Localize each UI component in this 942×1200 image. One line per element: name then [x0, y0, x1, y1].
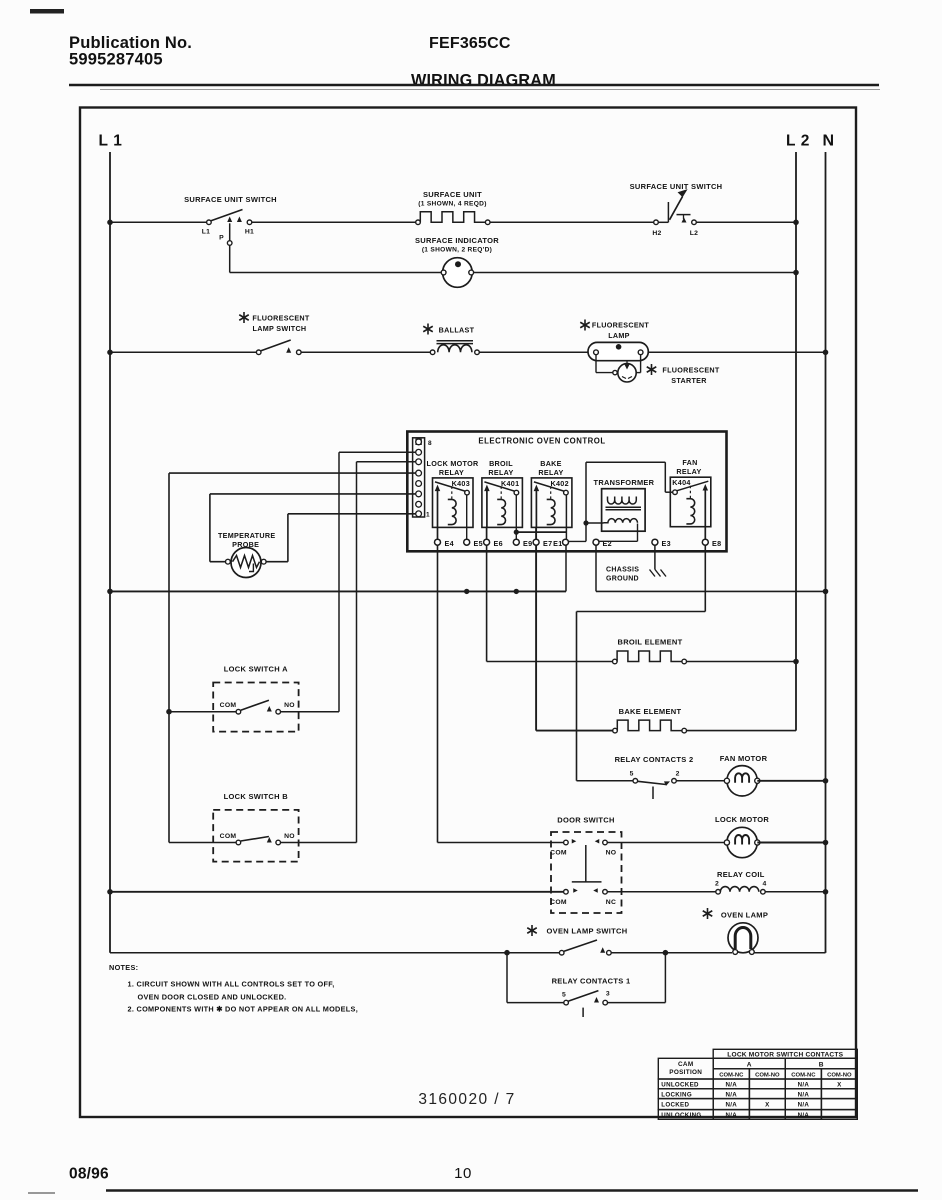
- svg-text:FLUORESCENT: FLUORESCENT: [252, 314, 310, 323]
- svg-text:NO: NO: [284, 833, 295, 840]
- svg-text:E3: E3: [662, 539, 671, 548]
- svg-text:SURFACE INDICATOR: SURFACE INDICATOR: [415, 236, 499, 245]
- svg-text:8: 8: [428, 440, 432, 447]
- svg-text:SURFACE UNIT SWITCH: SURFACE UNIT SWITCH: [630, 182, 723, 191]
- svg-text:GROUND: GROUND: [606, 576, 639, 583]
- svg-text:N/A: N/A: [798, 1082, 810, 1089]
- svg-text:FAN: FAN: [682, 458, 697, 467]
- svg-text:K403: K403: [452, 479, 470, 488]
- svg-text:K404: K404: [672, 478, 690, 487]
- svg-text:E2: E2: [603, 539, 612, 548]
- svg-text:ELECTRONIC OVEN CONTROL: ELECTRONIC OVEN CONTROL: [478, 437, 605, 446]
- svg-text:SURFACE UNIT: SURFACE UNIT: [423, 190, 482, 199]
- svg-text:FEF365CC: FEF365CC: [429, 35, 511, 52]
- svg-text:DOOR SWITCH: DOOR SWITCH: [557, 816, 614, 825]
- svg-text:NC: NC: [606, 899, 616, 906]
- svg-text:1. CIRCUIT SHOWN WITH ALL CONT: 1. CIRCUIT SHOWN WITH ALL CONTROLS SET T…: [128, 980, 335, 989]
- svg-text:LAMP SWITCH: LAMP SWITCH: [253, 324, 307, 333]
- svg-text:BAKE ELEMENT: BAKE ELEMENT: [619, 707, 682, 716]
- svg-text:LOCK MOTOR: LOCK MOTOR: [427, 459, 479, 468]
- svg-text:SURFACE UNIT SWITCH: SURFACE UNIT SWITCH: [184, 195, 277, 204]
- svg-text:2: 2: [715, 880, 719, 887]
- svg-text:OVEN LAMP SWITCH: OVEN LAMP SWITCH: [547, 927, 628, 936]
- svg-text:L2: L2: [690, 230, 699, 237]
- svg-text:N: N: [822, 133, 834, 150]
- svg-text:H1: H1: [245, 229, 254, 236]
- svg-text:N/A: N/A: [726, 1102, 738, 1109]
- svg-text:E7: E7: [543, 539, 552, 548]
- svg-text:FLUORESCENT: FLUORESCENT: [662, 366, 720, 375]
- svg-text:4: 4: [762, 880, 766, 887]
- svg-text:LOCKED: LOCKED: [661, 1102, 689, 1109]
- svg-text:RELAY: RELAY: [488, 468, 513, 477]
- svg-text:OVEN DOOR CLOSED AND UNLOCKED.: OVEN DOOR CLOSED AND UNLOCKED.: [138, 993, 287, 1002]
- svg-text:L1: L1: [202, 229, 211, 236]
- svg-text:WIRING DIAGRAM: WIRING DIAGRAM: [411, 72, 556, 90]
- svg-text:FAN MOTOR: FAN MOTOR: [720, 754, 768, 763]
- svg-text:COM-NO: COM-NO: [827, 1073, 852, 1079]
- svg-text:N/A: N/A: [798, 1091, 810, 1098]
- svg-text:Publication No.: Publication No.: [69, 34, 192, 52]
- svg-text:3: 3: [606, 991, 610, 998]
- svg-text:RELAY: RELAY: [676, 467, 701, 476]
- svg-text:RELAY: RELAY: [538, 468, 563, 477]
- svg-text:CHASSIS: CHASSIS: [606, 567, 639, 574]
- svg-text:UNLOCKED: UNLOCKED: [661, 1082, 699, 1089]
- svg-text:H2: H2: [652, 230, 661, 237]
- svg-text:N/A: N/A: [726, 1091, 738, 1098]
- svg-text:RELAY COIL: RELAY COIL: [717, 870, 765, 879]
- svg-text:COM: COM: [550, 899, 567, 906]
- svg-text:COM: COM: [220, 702, 237, 709]
- svg-text:N/A: N/A: [798, 1112, 810, 1119]
- svg-text:N/A: N/A: [726, 1112, 738, 1119]
- svg-text:E8: E8: [712, 539, 721, 548]
- svg-text:RELAY CONTACTS 2: RELAY CONTACTS 2: [615, 755, 694, 764]
- svg-text:FLUORESCENT: FLUORESCENT: [592, 321, 650, 330]
- svg-text:X: X: [765, 1102, 770, 1109]
- svg-text:LOCK MOTOR: LOCK MOTOR: [715, 815, 769, 824]
- svg-text:POSITION: POSITION: [669, 1069, 702, 1076]
- svg-text:A: A: [747, 1061, 752, 1068]
- svg-text:(1 SHOWN, 2 REQ'D): (1 SHOWN, 2 REQ'D): [422, 247, 492, 254]
- svg-text:N/A: N/A: [726, 1082, 738, 1089]
- svg-text:(1 SHOWN, 4 REQD): (1 SHOWN, 4 REQD): [418, 201, 486, 208]
- svg-text:BAKE: BAKE: [540, 459, 562, 468]
- svg-text:5: 5: [562, 992, 566, 999]
- svg-text:STARTER: STARTER: [671, 376, 707, 385]
- svg-text:BROIL: BROIL: [489, 459, 513, 468]
- svg-text:3160020 / 7: 3160020 / 7: [418, 1091, 515, 1108]
- svg-text:L 1: L 1: [99, 133, 123, 150]
- svg-text:L 2: L 2: [786, 133, 810, 150]
- svg-text:LOCK SWITCH A: LOCK SWITCH A: [224, 665, 288, 674]
- svg-text:E5: E5: [474, 539, 483, 548]
- svg-text:10: 10: [454, 1165, 472, 1182]
- svg-text:PROBE: PROBE: [232, 540, 259, 549]
- svg-text:2. COMPONENTS WITH ✱ DO NOT AP: 2. COMPONENTS WITH ✱ DO NOT APPEAR ON AL…: [128, 1005, 359, 1014]
- svg-text:NOTES:: NOTES:: [109, 963, 138, 972]
- svg-text:TEMPERATURE: TEMPERATURE: [218, 531, 275, 540]
- svg-text:K401: K401: [501, 479, 519, 488]
- svg-text:NO: NO: [284, 702, 295, 709]
- svg-text:N/A: N/A: [798, 1102, 810, 1109]
- svg-text:UNLOCKING: UNLOCKING: [661, 1112, 701, 1119]
- svg-text:X: X: [837, 1082, 842, 1089]
- svg-text:CAM: CAM: [678, 1061, 693, 1068]
- svg-text:E9: E9: [523, 539, 532, 548]
- svg-text:1: 1: [426, 512, 430, 519]
- svg-text:5: 5: [630, 771, 634, 778]
- svg-text:RELAY: RELAY: [439, 468, 464, 477]
- svg-text:5995287405: 5995287405: [69, 51, 163, 69]
- svg-text:COM-NC: COM-NC: [719, 1073, 744, 1079]
- svg-text:COM: COM: [550, 850, 567, 857]
- svg-text:LOCKING: LOCKING: [661, 1091, 692, 1098]
- svg-text:COM-NO: COM-NO: [755, 1073, 780, 1079]
- svg-text:LAMP: LAMP: [608, 331, 630, 340]
- svg-text:BALLAST: BALLAST: [439, 326, 475, 335]
- svg-text:TRANSFORMER: TRANSFORMER: [594, 478, 655, 487]
- svg-text:OVEN LAMP: OVEN LAMP: [721, 911, 768, 920]
- svg-text:COM: COM: [220, 833, 237, 840]
- svg-text:E4: E4: [445, 539, 454, 548]
- svg-text:NO: NO: [606, 850, 617, 857]
- svg-text:COM-NC: COM-NC: [791, 1073, 816, 1079]
- svg-text:2: 2: [676, 771, 680, 778]
- svg-text:K402: K402: [551, 479, 569, 488]
- svg-text:LOCK MOTOR SWITCH CONTACTS: LOCK MOTOR SWITCH CONTACTS: [727, 1051, 843, 1058]
- svg-text:LOCK SWITCH B: LOCK SWITCH B: [224, 792, 289, 801]
- svg-text:BROIL ELEMENT: BROIL ELEMENT: [617, 638, 682, 647]
- svg-text:E1: E1: [553, 539, 562, 548]
- svg-text:B: B: [819, 1061, 824, 1068]
- svg-text:P: P: [219, 235, 224, 242]
- svg-text:E6: E6: [494, 539, 503, 548]
- svg-text:08/96: 08/96: [69, 1166, 109, 1183]
- svg-text:RELAY CONTACTS 1: RELAY CONTACTS 1: [552, 977, 631, 986]
